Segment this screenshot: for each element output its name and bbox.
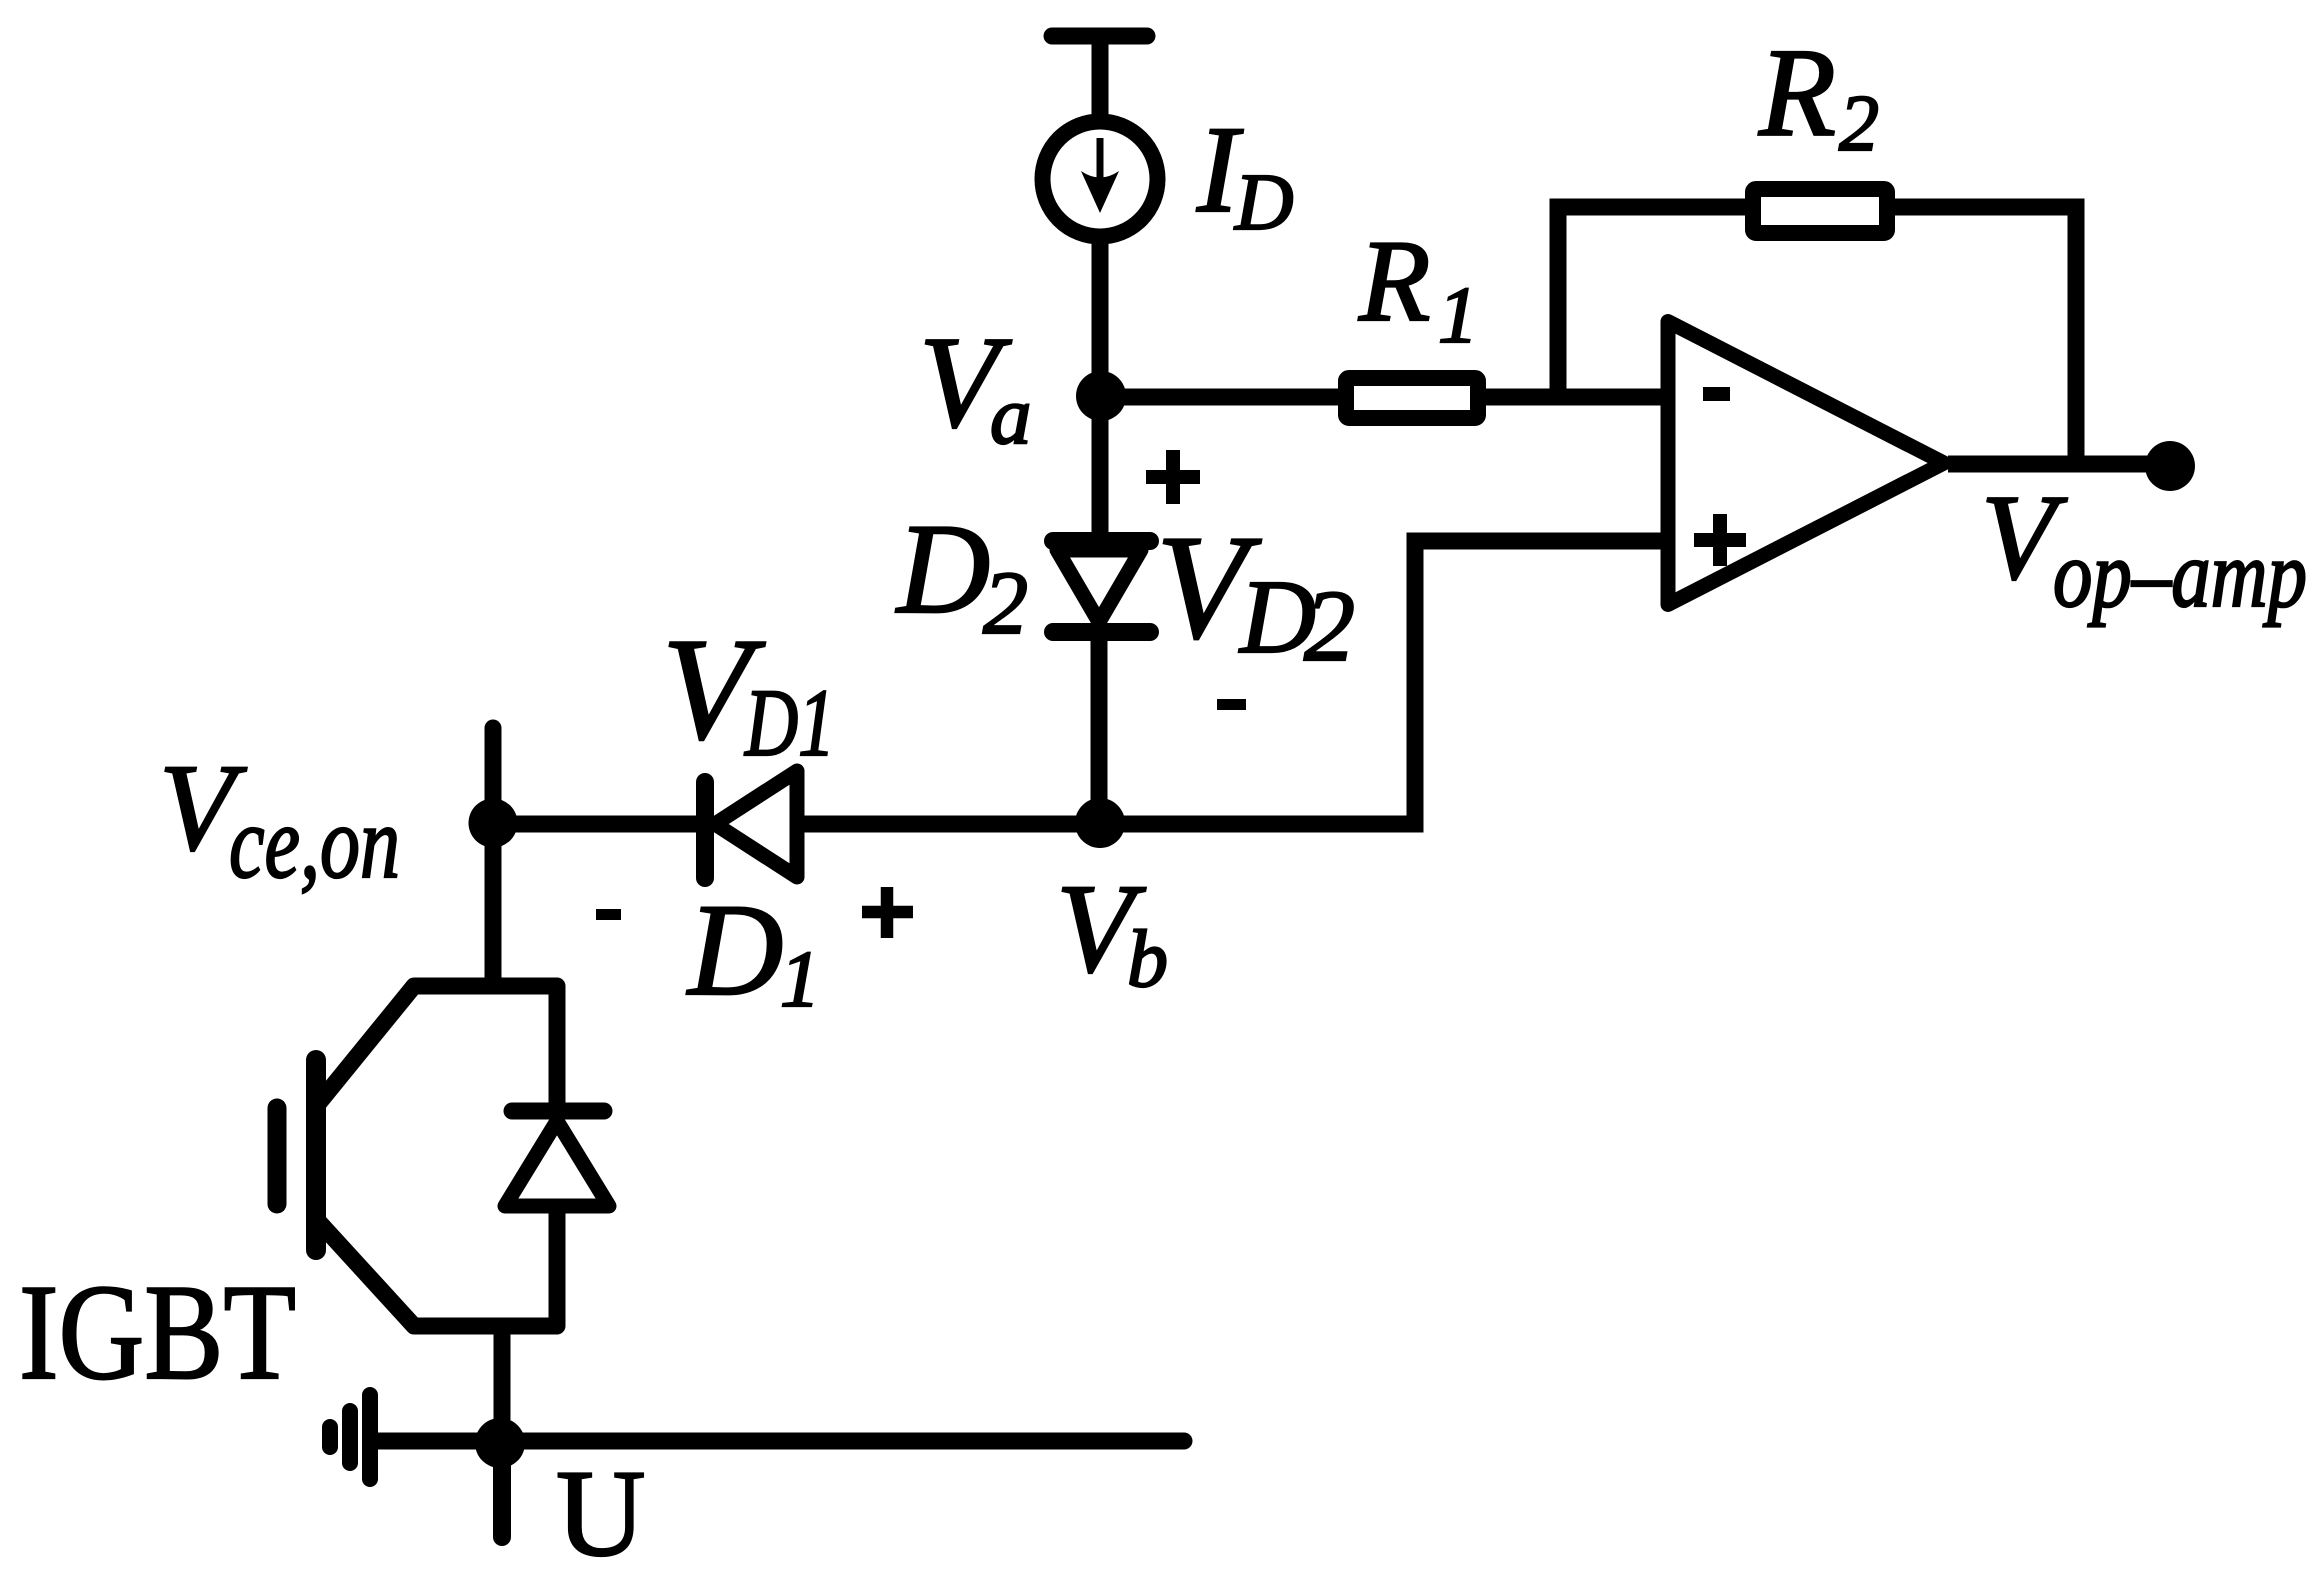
wire D2 to node Vb <box>1091 641 1108 823</box>
svg-text:b: b <box>1127 913 1168 1004</box>
IGBT gate bar (body electrode) <box>306 1060 326 1250</box>
label V_D2 <box>1156 505 1355 683</box>
wire plus input <box>1415 541 1668 833</box>
collector wire Vce,on to IGBT <box>485 824 502 978</box>
diode D2 triangle <box>1057 550 1141 622</box>
diode D2 anode bar <box>1053 532 1150 550</box>
output node V_op-amp <box>2145 441 2195 491</box>
label I_D <box>1196 101 1294 247</box>
svg-text:R: R <box>1758 24 1836 163</box>
svg-text:2: 2 <box>983 554 1028 653</box>
ground stub wire <box>374 1433 500 1450</box>
diode D1 cathode bar <box>696 782 714 878</box>
IGBT gate bar (gate electrode) <box>268 1108 287 1204</box>
stub below node U <box>493 1443 511 1537</box>
diode D1 triangle <box>715 771 797 877</box>
svg-text:D: D <box>895 497 990 640</box>
stub above Vce,on node <box>485 728 502 800</box>
svg-text:1: 1 <box>1438 272 1478 360</box>
svg-text:ce,on: ce,on <box>229 785 400 900</box>
op-amp plus sign <box>1694 514 1746 566</box>
label Vb <box>1056 859 1168 1004</box>
label Va <box>919 310 1032 461</box>
resistor R2 <box>1753 189 1887 233</box>
ground bar 1 <box>362 1395 378 1479</box>
current source I_D circle <box>1043 122 1158 237</box>
svg-text:op–amp: op–amp <box>2053 521 2307 627</box>
wire current source to node Va <box>1092 243 1109 396</box>
label R2 <box>1758 24 1879 168</box>
label V_op-amp <box>1981 470 2307 627</box>
current source arrow <box>1097 138 1104 192</box>
ground bar 3 <box>322 1427 338 1447</box>
label V_ce,on <box>159 739 400 900</box>
emitter wire IGBT to node U <box>494 1326 511 1420</box>
resistor R1 <box>1346 378 1478 418</box>
op-amp minus sign <box>1703 387 1730 401</box>
feedback wire right (R2 to output) <box>1887 207 2076 464</box>
svg-text:IGBT: IGBT <box>19 1256 296 1408</box>
label R1 <box>1358 217 1478 360</box>
rail from node U to the right <box>500 1433 1184 1450</box>
svg-text:U: U <box>556 1445 646 1577</box>
svg-text:1: 1 <box>780 936 820 1024</box>
wire Va to D2 <box>1092 396 1109 540</box>
svg-text:R: R <box>1358 217 1430 346</box>
minus sign below D2 <box>1217 699 1246 710</box>
svg-text:a: a <box>990 369 1032 461</box>
label D1 <box>686 876 820 1024</box>
node Vb <box>1075 798 1125 848</box>
diode D2 cathode bar <box>1053 623 1150 641</box>
IGBT body upper outline <box>318 986 557 1111</box>
wire supply to current source <box>1092 36 1109 122</box>
node U <box>475 1418 525 1468</box>
plus sign above D2 <box>1146 450 1200 504</box>
svg-text:D1: D1 <box>743 669 835 776</box>
svg-text:2: 2 <box>1304 570 1355 683</box>
node Va <box>1076 371 1126 421</box>
ground bar 2 <box>342 1411 358 1463</box>
svg-text:2: 2 <box>1839 80 1879 168</box>
IGBT body lower outline <box>318 1206 557 1326</box>
label V_D1 <box>662 608 835 776</box>
svg-text:D: D <box>1234 157 1294 247</box>
node Vce,on <box>469 799 518 848</box>
feedback wire left (tap up to R2) <box>1558 207 1753 397</box>
label D2 <box>895 497 1028 653</box>
IGBT freewheel diode triangle <box>505 1121 609 1206</box>
op-amp output wire <box>1948 456 2150 473</box>
IGBT freewheel diode cathode bar <box>512 1103 604 1120</box>
op-amp triangle <box>1668 322 1944 605</box>
plus sign right of D1 <box>862 887 913 938</box>
svg-text:D: D <box>686 876 783 1023</box>
wire R1 to op-amp minus input <box>1486 389 1668 406</box>
rail Vce,on to Vb corner <box>493 816 1415 833</box>
supply bar <box>1052 28 1147 45</box>
wire Va to R1 <box>1101 389 1346 406</box>
minus sign left of D1 <box>596 909 621 920</box>
